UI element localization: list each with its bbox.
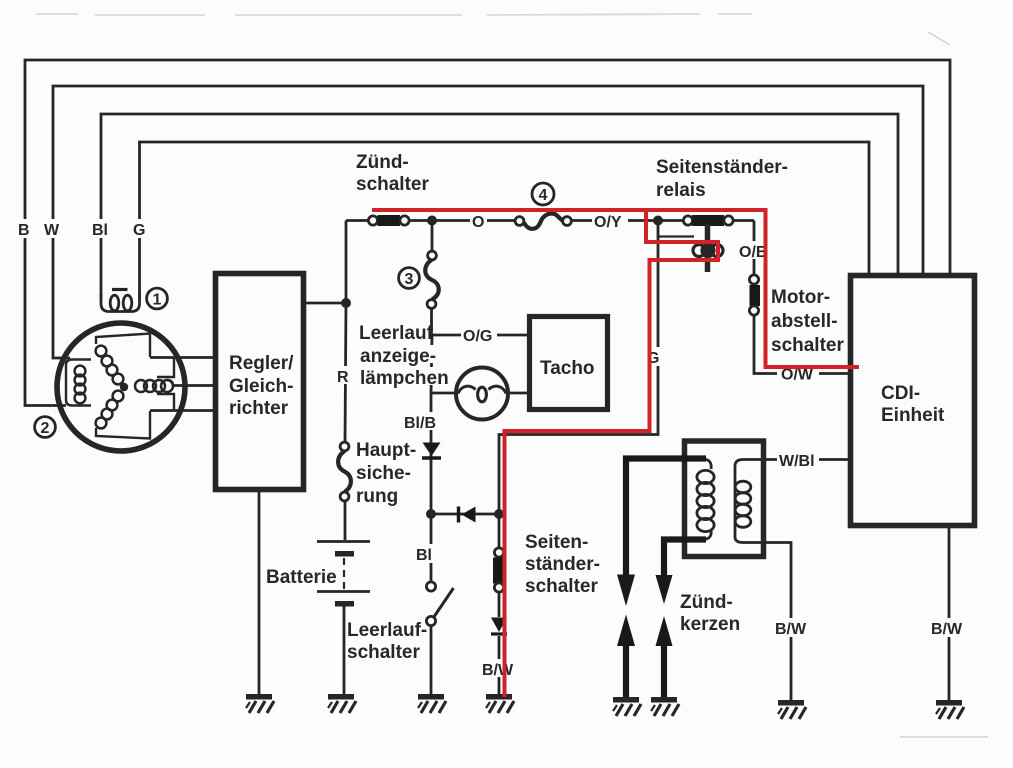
svg-text:Zünd-: Zünd- [356, 152, 409, 173]
svg-text:kerzen: kerzen [680, 614, 740, 635]
diode D2 [459, 507, 476, 523]
wire: relay to engine stop switch [753, 221, 756, 276]
svg-text:Tacho: Tacho [540, 358, 595, 379]
callout 2 [35, 417, 56, 438]
svg-text:Seiten-: Seiten- [525, 532, 588, 553]
wire: generator phase 2 to regulator [173, 384, 213, 387]
net label G (relay wire) [645, 347, 662, 367]
wire: fuse 3 to O/G node [430, 309, 433, 336]
svg-text:schalter: schalter [771, 335, 844, 356]
ground (spark plug 1) [613, 697, 641, 716]
svg-text:schalter: schalter [356, 174, 429, 195]
svg-text:O/Y: O/Y [594, 214, 622, 231]
ground (ignition coil secondary) [778, 700, 806, 719]
svg-text:O: O [472, 214, 484, 231]
HT lead 2 (thick) [664, 540, 706, 579]
net label O/Y [592, 211, 628, 231]
svg-text:3: 3 [405, 271, 414, 288]
net label R [336, 366, 350, 386]
wire: fuse 4 to relay [572, 219, 655, 222]
junction R node [341, 298, 351, 308]
wire: diode to ground [498, 636, 501, 694]
wire: generator phase 1 to regulator [150, 356, 213, 359]
svg-text:rung: rung [356, 486, 398, 507]
svg-text:Bl/B: Bl/B [404, 415, 436, 432]
svg-text:relais: relais [656, 180, 706, 201]
svg-text:R: R [337, 369, 349, 386]
svg-text:CDI-: CDI- [881, 383, 920, 404]
svg-text:Einheit: Einheit [881, 405, 945, 426]
label Zündkerzen [680, 592, 740, 635]
ignition coil secondary winding [735, 460, 751, 543]
generator / alternator [57, 323, 185, 451]
wire R: regulator to junction [306, 302, 346, 305]
ground (CDI) [936, 700, 964, 719]
battery [317, 542, 370, 607]
ground (battery) [328, 694, 356, 713]
ground (side stand switch) [486, 694, 514, 713]
svg-text:1: 1 [153, 292, 162, 309]
wire: battery to ground [343, 604, 346, 694]
callout 4 [532, 183, 554, 205]
wire: junction to fuse 4 [432, 219, 515, 222]
stator coil upper-left [96, 346, 107, 357]
svg-text:B/W: B/W [775, 621, 807, 638]
svg-text:4: 4 [539, 187, 548, 204]
fuse 3 [425, 251, 439, 308]
net label B/W (CDI) [930, 618, 968, 638]
svg-text:Leerlauf-: Leerlauf- [347, 620, 427, 641]
svg-text:O/W: O/W [781, 367, 814, 384]
wire: fuse to battery [344, 501, 347, 540]
net label G [131, 219, 148, 239]
wire G (net G: pickup to CDI) [140, 142, 870, 298]
wire O/G to tacho [432, 334, 527, 337]
wire R: junction up to ignition switch [345, 221, 348, 304]
regulator/rectifier box [216, 274, 304, 490]
highlighted path (red) branch through relay coil [505, 210, 719, 697]
svg-text:Seitenständer-: Seitenständer- [656, 157, 788, 178]
stator coil right [135, 380, 147, 392]
wire: junction to diode D2 [431, 513, 499, 516]
wire: O/G node down to lamp row [431, 335, 432, 393]
wire G: relay to corner [499, 221, 658, 515]
stator coil lower-left [96, 418, 107, 429]
star point [120, 383, 128, 391]
wire O/W to CDI [819, 372, 848, 375]
label Leerlaufschalter [347, 620, 427, 663]
highlighted path (red) main [372, 210, 859, 367]
indicator lamp [431, 368, 527, 420]
net label Bl [91, 219, 111, 239]
stator core outline bottom [96, 411, 150, 439]
ground (regulator) [246, 694, 274, 713]
HT lead 2 arrowhead [656, 575, 673, 604]
svg-text:abstell-: abstell- [771, 311, 838, 332]
net label W [42, 219, 63, 239]
callout 1 [147, 288, 168, 309]
relay contact row [658, 215, 754, 226]
svg-text:Motor-: Motor- [771, 287, 830, 308]
svg-text:richter: richter [229, 398, 289, 419]
junction: Bl node [426, 509, 436, 519]
tacho box [530, 317, 608, 410]
wire Bl (net Bl: pickup to CDI) [101, 114, 898, 298]
wire B (net B: generator to CDI) [25, 60, 950, 406]
net label B/W (coil) [773, 618, 811, 638]
label Seitenständer-Relais [656, 157, 788, 201]
wire: switch to diode D3 [498, 592, 501, 617]
wire: stop switch down to O/W row [754, 315, 777, 374]
svg-text:ständer-: ständer- [525, 554, 600, 575]
charge coil (left) [75, 366, 86, 377]
wire: neutral switch to ground [430, 625, 433, 694]
diode D3 [491, 618, 507, 635]
label Leerlaufanzeigelämpchen [358, 322, 449, 389]
svg-text:anzeige-: anzeige- [360, 346, 436, 367]
svg-text:lämpchen: lämpchen [360, 368, 449, 389]
fuse 3 wire from junction [431, 221, 434, 252]
net label W/Bl [777, 450, 819, 470]
pickup coil (component 1) [101, 290, 140, 312]
ignition switch contacts [346, 215, 432, 226]
HT lead 1 arrowhead [617, 575, 635, 607]
wire R: junction down to fuse [345, 303, 346, 443]
ignition coil box [685, 441, 764, 557]
svg-text:Bl: Bl [416, 547, 432, 564]
label Hauptsicherung [356, 440, 416, 507]
junction: ignition switch / fuse 3 [427, 216, 437, 226]
svg-text:O/B: O/B [739, 244, 767, 261]
wire: Bl junction down to neutral switch [430, 514, 433, 582]
pickup bracket [66, 360, 91, 406]
net label O [470, 211, 487, 231]
junction: relay node [653, 216, 663, 226]
svg-text:Haupt-: Haupt- [356, 440, 416, 461]
wire: generator phase 3 to regulator [150, 409, 213, 412]
svg-text:Zünd-: Zünd- [680, 592, 733, 613]
HT lead 1 (thick) [626, 459, 706, 577]
svg-text:G: G [133, 222, 145, 239]
net label O/G [461, 326, 497, 345]
svg-text:B/W: B/W [482, 662, 514, 679]
diode D1 [422, 443, 441, 459]
wire B/W: coil secondary to ground [743, 543, 791, 701]
svg-text:Gleich-: Gleich- [229, 376, 293, 397]
svg-text:Batterie: Batterie [266, 567, 337, 588]
svg-text:siche-: siche- [356, 463, 411, 484]
ground (spark plug 2) [651, 697, 679, 716]
spark plug 1 (arrow up) [617, 615, 635, 700]
svg-text:W/Bl: W/Bl [779, 453, 815, 470]
wire W/Bl: coil to CDI [743, 458, 848, 461]
svg-text:W: W [44, 222, 60, 239]
relay coil [658, 221, 723, 273]
spark plug 2 (arrow up) [656, 616, 673, 699]
net label Bl (neutral) [414, 544, 434, 564]
wire: regulator to ground [258, 492, 261, 694]
svg-text:Regler/: Regler/ [229, 353, 294, 374]
wire: G corner down to side stand switch [498, 514, 501, 548]
svg-text:B: B [18, 222, 30, 239]
svg-text:B/W: B/W [931, 621, 963, 638]
wire W (net W) [53, 86, 923, 358]
CDI box [851, 276, 975, 526]
net label B [16, 219, 33, 239]
ground (neutral switch) [418, 694, 446, 713]
wire: CDI to ground B/W [948, 528, 951, 700]
engine stop switch (Motorabstellschalter) [749, 275, 760, 315]
net label O/B [737, 241, 771, 261]
label Zündschalter [356, 152, 429, 195]
fuse 4 (inline fuse) [515, 214, 571, 229]
net label Bl/B [402, 412, 438, 432]
stator core outline top [96, 334, 150, 358]
svg-text:O/G: O/G [463, 328, 492, 345]
svg-text:schalter: schalter [525, 576, 598, 597]
label Motorabstellschalter [771, 287, 844, 356]
ignition coil primary winding [697, 459, 714, 540]
label Seitenständerschalter [525, 532, 600, 597]
svg-text:Bl: Bl [92, 222, 108, 239]
callout 3 [399, 268, 420, 289]
neutral switch (Leerlaufschalter) [426, 582, 453, 626]
svg-text:schalter: schalter [347, 642, 420, 663]
wire: lamp node down through diode [430, 393, 433, 514]
junction: side stand wire [494, 509, 504, 519]
fuse main (Hauptsicherung) [338, 442, 351, 501]
svg-text:2: 2 [41, 420, 50, 437]
side stand switch connector [493, 548, 505, 592]
net label B/W (side stand) [480, 659, 516, 679]
svg-text:Leerlauf: Leerlauf [359, 323, 434, 344]
